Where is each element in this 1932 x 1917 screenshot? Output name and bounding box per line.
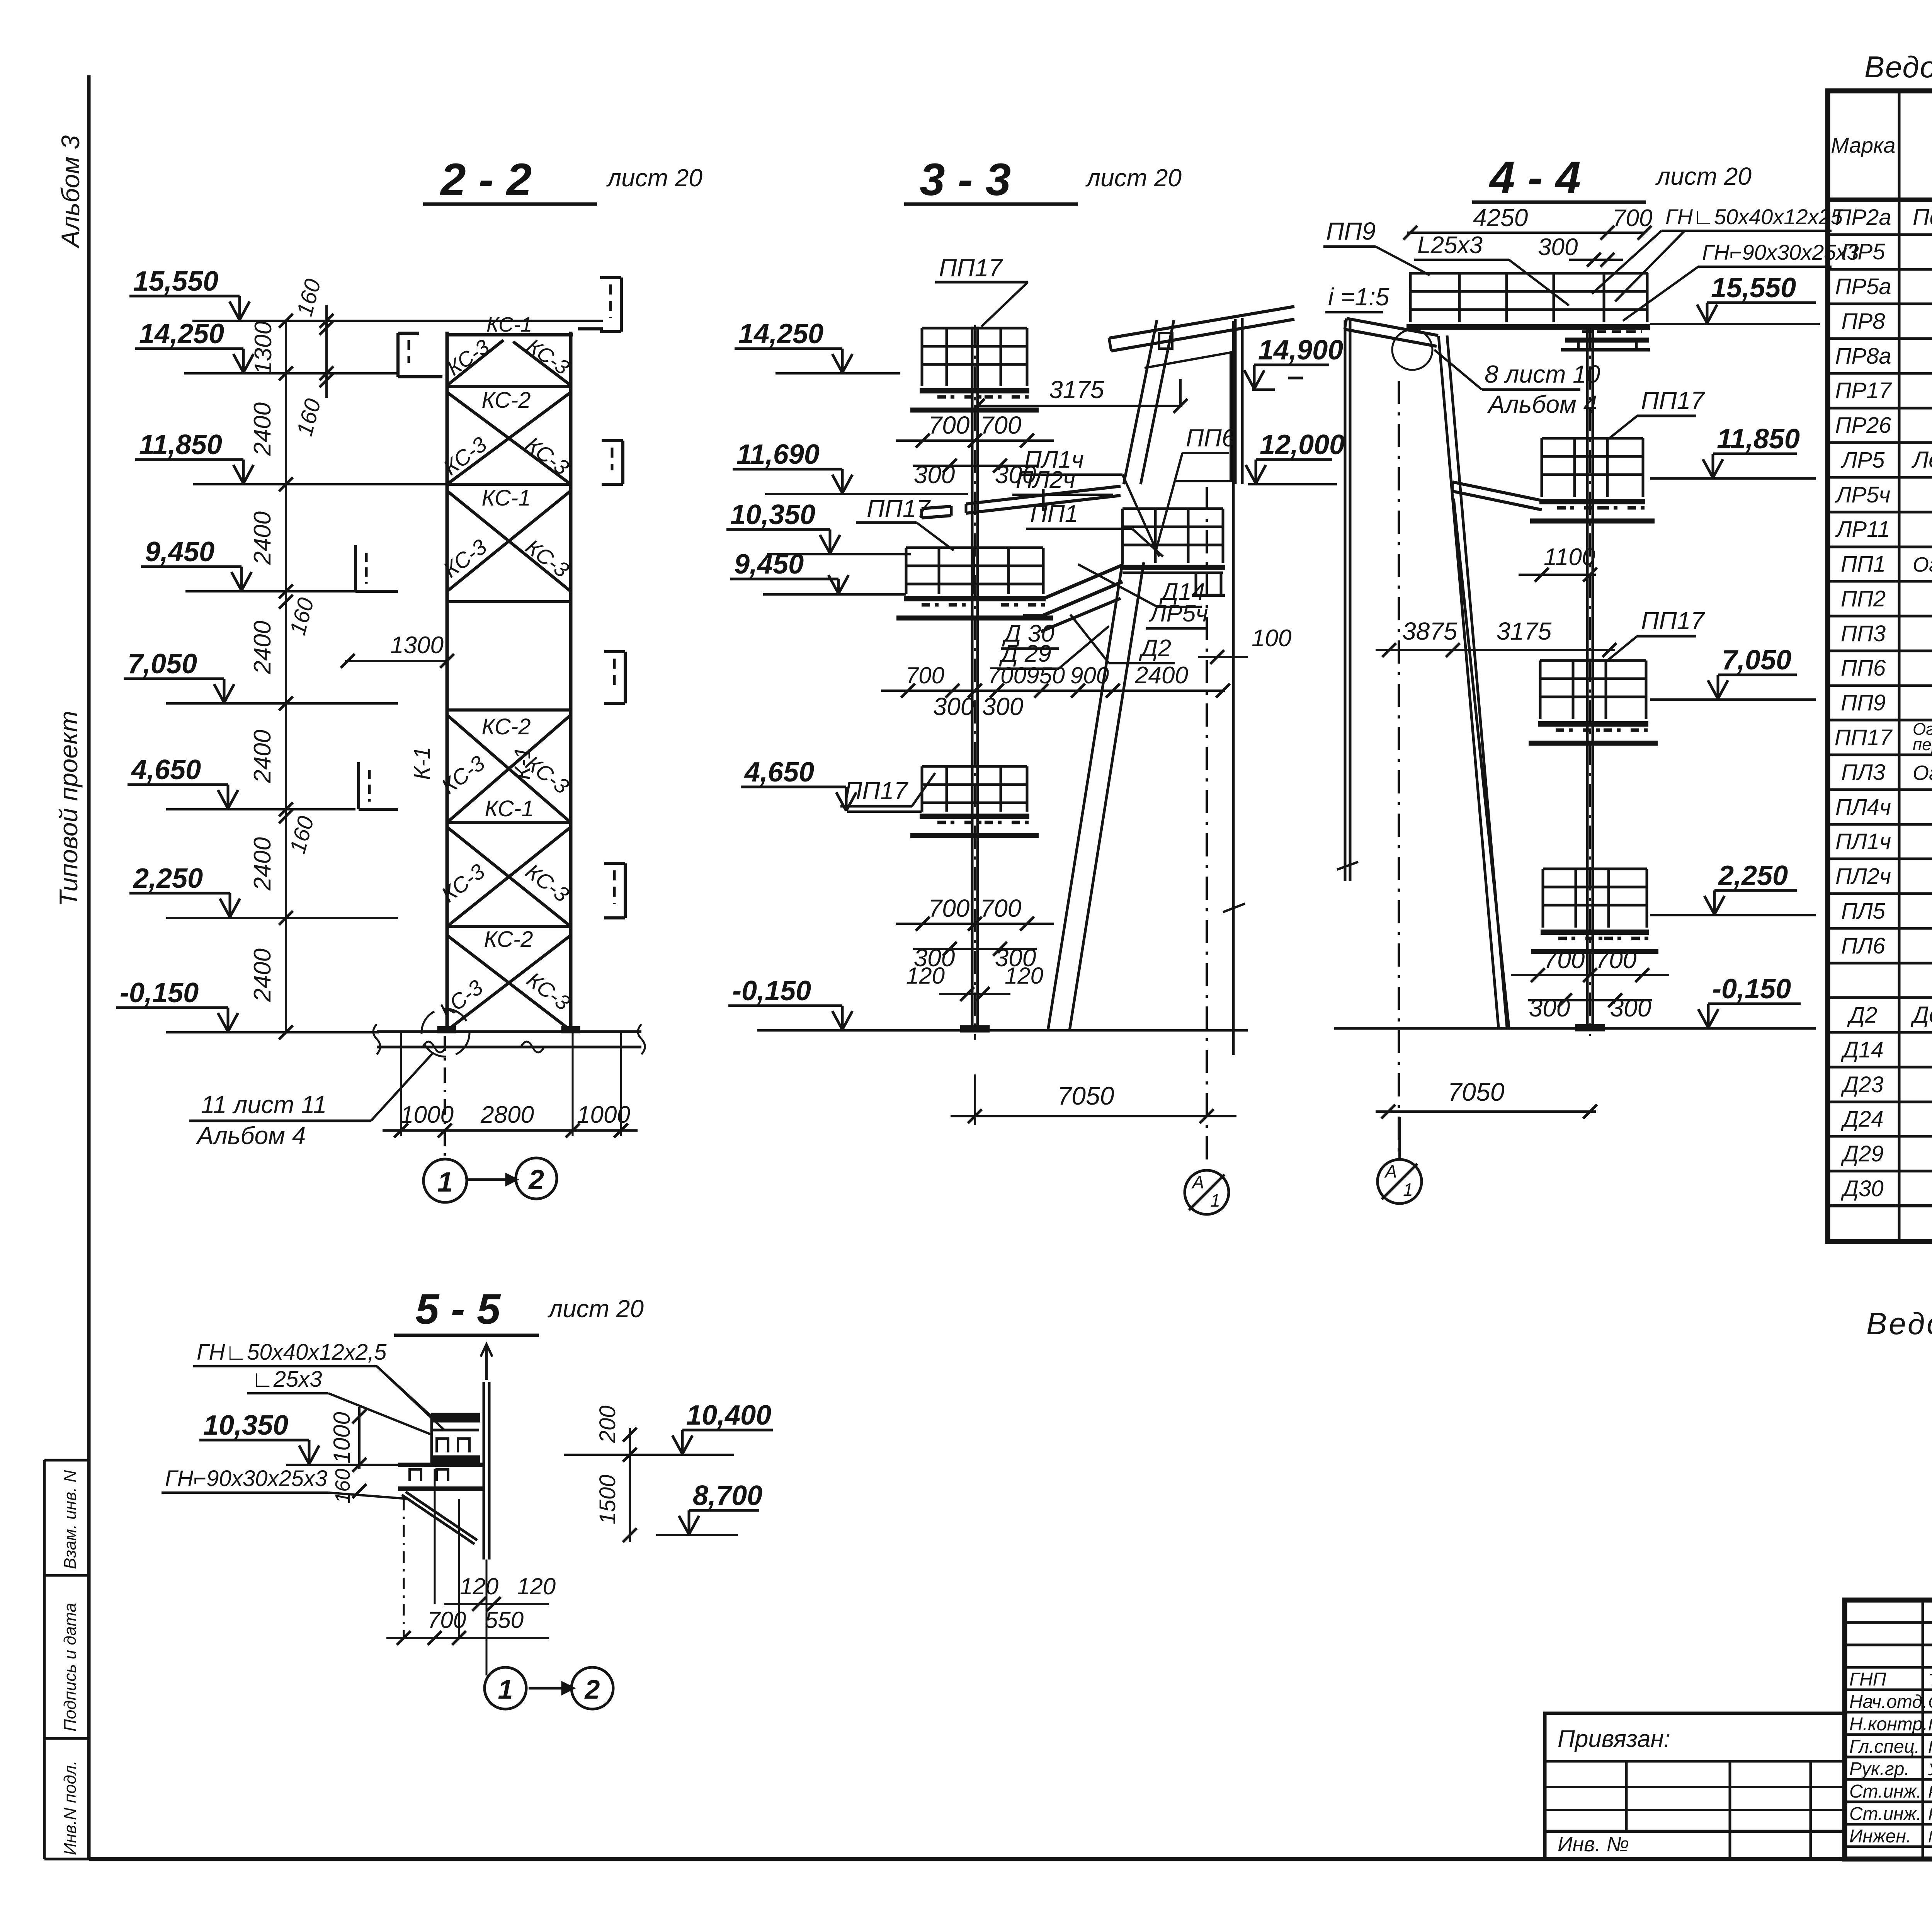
svg-text:700: 700 [1612,205,1652,232]
svg-text:3175: 3175 [1497,617,1552,645]
svg-text:переходных площадок: переходных площадок [1913,735,1932,754]
svg-text:Д2: Д2 [1139,635,1171,662]
svg-text:1: 1 [1210,1190,1220,1210]
svg-text:-0,150: -0,150 [732,976,811,1006]
channel bracket right top [620,278,623,332]
svg-text:160: 160 [331,1469,354,1503]
svg-text:2400: 2400 [249,402,276,456]
truss X panel 4 KC-3 [447,827,571,926]
svg-text:лист 20: лист 20 [606,164,702,192]
svg-text:1100: 1100 [1544,544,1595,570]
axis arrow 1-2 [468,1178,506,1181]
axis line to circle 1 [444,1036,446,1159]
truss X panel 2 KC-3 [447,491,571,591]
svg-text:ГН∟50х40х12х2,5: ГН∟50х40х12х2,5 [197,1340,387,1365]
svg-text:Д29: Д29 [1840,1141,1883,1166]
svg-text:4 - 4: 4 - 4 [1489,152,1581,203]
svg-text:КС-3: КС-3 [521,432,574,480]
svg-text:ПР2а: ПР2а [1835,205,1891,230]
truss X panel 5 KC-3 [447,935,571,1030]
svg-text:-0,150: -0,150 [120,977,199,1008]
svg-text:КС-1: КС-1 [485,796,534,821]
svg-text:ПП17: ПП17 [939,254,1003,282]
svg-text:7,050: 7,050 [128,649,197,679]
svg-text:120: 120 [1005,963,1043,989]
bend detail circle 4-4 [1392,330,1432,370]
svg-text:2400: 2400 [1134,662,1188,689]
svg-text:700: 700 [427,1607,466,1633]
svg-text:ПР17: ПР17 [1835,378,1892,403]
svg-text:2: 2 [584,1674,600,1704]
platform 11.85 4-4 [1542,437,1643,440]
detail channel clips 5-5 [437,1439,448,1452]
svg-text:7050: 7050 [1448,1078,1505,1106]
svg-text:Привязан:: Привязан: [1558,1726,1670,1752]
dim 7050 3-3 [974,1074,976,1125]
привязан grid [1545,1786,1845,1788]
svg-text:Д24: Д24 [1840,1107,1883,1132]
svg-text:2800: 2800 [480,1102,534,1128]
vertical refs 5-5 [403,1499,405,1638]
svg-text:Учитель: Учитель [1928,1760,1932,1779]
svg-text:300: 300 [1529,994,1570,1022]
svg-text:КС-1: КС-1 [486,313,532,336]
svg-text:L25х3: L25х3 [1417,232,1483,259]
svg-text:КС-2: КС-2 [482,714,531,739]
svg-text:200: 200 [595,1406,620,1444]
axis circle A/1 3-3 [1185,1170,1229,1214]
platform 2.25 4-4 [1543,868,1647,870]
svg-text:2400: 2400 [249,621,276,674]
svg-text:3 - 3: 3 - 3 [920,154,1011,205]
channel bracket right 7.05 [624,652,627,703]
svg-text:ПР8: ПР8 [1842,309,1885,334]
stair ЛР11 4-4 [1454,499,1509,1027]
gallery right column 3-3 [1234,319,1237,484]
svg-text:КС-3: КС-3 [521,859,574,907]
truss strut KC-2 at 2.25 [447,925,571,928]
svg-text:700: 700 [1544,946,1585,974]
svg-text:лист 20: лист 20 [1655,162,1752,190]
svg-text:4250: 4250 [1473,204,1528,232]
base detail circle [422,1009,469,1057]
svg-text:А: А [1191,1172,1204,1192]
svg-text:3875: 3875 [1402,617,1458,645]
svg-text:950: 950 [1026,662,1065,688]
svg-text:4,650: 4,650 [131,754,201,785]
svg-text:160: 160 [285,814,319,856]
svg-text:10,400: 10,400 [686,1400,771,1431]
svg-text:Альбом 4: Альбом 4 [196,1122,306,1149]
axis circle 2 5-5 [571,1667,613,1709]
svg-text:11,850: 11,850 [139,429,222,460]
platform ПП6 3-3 right part [1122,507,1223,510]
svg-text:ПЛ4ч: ПЛ4ч [1835,795,1891,820]
svg-text:700: 700 [929,894,970,922]
svg-text:К-1: К-1 [410,747,435,780]
channel bracket left 14.25 [396,333,400,377]
svg-text:300: 300 [933,693,975,720]
axis circle 1 5-5 [485,1667,526,1709]
detail brace 5-5 [406,1492,477,1540]
svg-text:ЛР5ч: ЛР5ч [1148,600,1208,627]
svg-text:ПП6: ПП6 [1186,424,1236,452]
svg-text:1000: 1000 [577,1102,630,1128]
tick mark near gallery [1288,377,1303,380]
svg-text:9,450: 9,450 [145,536,214,567]
axis dash 4-4 left [1398,381,1400,1159]
truss left chord K-1 [446,332,449,1032]
svg-text:ПР5: ПР5 [1842,239,1886,264]
channel bracket left 4.65 [359,808,398,811]
svg-text:∟25х3: ∟25х3 [252,1367,322,1392]
detail post arrow 5-5 [485,1345,488,1380]
foundation lines 2-2 [377,1030,641,1033]
svg-text:ПП9: ПП9 [1841,690,1886,715]
gallery inner panel 3-3 [1145,352,1231,481]
svg-text:14,900: 14,900 [1258,335,1343,366]
svg-text:160: 160 [292,396,326,439]
svg-text:2,250: 2,250 [1718,860,1788,891]
svg-text:ПП2: ПП2 [1841,586,1886,611]
svg-text:Гудзенко: Гудзенко [1928,1715,1932,1734]
svg-text:2400: 2400 [249,837,276,891]
svg-text:Взам. инв. N: Взам. инв. N [61,1470,80,1569]
svg-text:Гл.спец.: Гл.спец. [1849,1737,1920,1757]
svg-text:1: 1 [437,1167,453,1198]
svg-text:2400: 2400 [249,511,276,565]
svg-text:3175: 3175 [1049,376,1104,403]
truss strut KC-1 at 11.85 [447,483,571,486]
svg-text:ПР8а: ПР8а [1835,344,1891,369]
svg-text:Ведомость элементов смо: Ведомость элементов смотрите на листе 20… [1866,1306,1932,1341]
svg-text:2: 2 [528,1165,544,1195]
detail floor line 5-5 [398,1463,483,1467]
truss strut KC-1 at 4.65 [447,821,571,824]
inclined walkway ПЛ2ч 3-3 [966,486,1121,504]
svg-text:ПЛ6: ПЛ6 [1841,933,1886,958]
svg-text:Рапопорт: Рапопорт [1928,1805,1932,1824]
dims under 10.35 platform 3-3 [881,690,1225,692]
stair flight lower 3-3 [1048,562,1122,1030]
svg-text:Светличный: Светличный [1928,1693,1932,1712]
svg-text:12,000: 12,000 [1260,429,1345,460]
svg-text:Инв. №: Инв. № [1558,1833,1629,1856]
svg-text:лист 20: лист 20 [547,1295,644,1323]
ground line 4-4 [1334,1027,1719,1030]
dim 7050 4-4 [1376,1110,1596,1113]
svg-text:Ст.инж.: Ст.инж. [1849,1804,1922,1824]
svg-text:700: 700 [906,662,944,688]
svg-text:КС-3: КС-3 [522,967,575,1015]
axis circle A/1 4-4 [1378,1159,1422,1204]
svg-text:2400: 2400 [249,948,276,1002]
svg-text:Дополнительный элемент: Дополнительный элемент [1910,1002,1932,1028]
svg-text:Подпись и дата: Подпись и дата [61,1603,80,1731]
svg-text:КС-3: КС-3 [443,335,493,380]
svg-text:Альбом 4: Альбом 4 [1487,390,1597,418]
axis circle 1 [423,1159,467,1202]
secondary 160 offsets [325,305,328,398]
truss X panel 1 KC-3 [447,392,571,484]
gallery support leg 4-4 [1439,336,1498,1027]
svg-text:А: А [1384,1161,1397,1182]
svg-text:ПП17: ПП17 [1641,386,1705,414]
channel bracket right 2.25 [624,863,627,918]
svg-text:10,350: 10,350 [730,499,815,530]
svg-text:Типовой проект: Типовой проект [54,711,83,906]
channel bracket left 9.45 [355,590,398,593]
axis dash line 3-3 right [1206,487,1208,1168]
svg-text:Д14: Д14 [1840,1037,1883,1062]
top platform 15.55 4-4 [1409,272,1648,275]
dims 700-700 under 2.25 platform 4-4 [1511,974,1669,976]
svg-text:8,700: 8,700 [693,1480,762,1511]
svg-text:7050: 7050 [1058,1081,1114,1110]
dim 3175 3-3 [974,405,1182,407]
dims 700-700 under top platform 3-3 [896,439,1054,442]
gallery roof left 4-4 [1347,318,1438,335]
svg-text:1: 1 [1403,1180,1413,1200]
svg-text:Н.контр.: Н.контр. [1849,1714,1928,1735]
walkway plank piece left of post [922,506,951,509]
svg-text:15,550: 15,550 [1711,272,1796,303]
svg-text:Д30: Д30 [1840,1176,1883,1201]
svg-text:Марка: Марка [1831,133,1895,157]
svg-text:Лестничный марш: Лестничный марш [1911,447,1932,473]
svg-text:КС-3: КС-3 [523,334,573,380]
axes dimension 1000-2800-1000 [400,1032,402,1136]
svg-text:Инжен.: Инжен. [1849,1826,1911,1847]
dims 700-700 under 4.65 platform 3-3 [896,923,1054,925]
svg-text:14,250: 14,250 [139,318,224,349]
svg-text:Мазаева: Мазаева [1928,1827,1932,1846]
title block signature rows [1845,1621,1932,1624]
svg-text:9,450: 9,450 [734,549,804,580]
svg-text:ПП17: ПП17 [844,777,908,805]
svg-text:Туринский: Туринский [1928,1670,1932,1689]
truss top panel lambda brace KC-3 [447,340,503,385]
platform 7.05 4-4 [1540,659,1646,662]
svg-text:1300: 1300 [250,321,277,375]
svg-text:550: 550 [485,1607,524,1633]
svg-text:ГНП: ГНП [1849,1669,1886,1690]
svg-text:300: 300 [982,693,1024,720]
platform 10.35 3-3 left part [906,546,1043,549]
dim 1300 horizontal [345,660,447,662]
truss base plates [438,1027,455,1032]
привязан block frame [1545,1713,1845,1859]
svg-text:ГН⌐90х30х25х3: ГН⌐90х30х25х3 [1702,240,1859,264]
svg-text:ПП1: ПП1 [1030,501,1078,527]
top platform right support 4-4 [1582,330,1642,333]
svg-text:Альбом 3: Альбом 3 [56,135,85,249]
svg-text:ЛР5: ЛР5 [1840,448,1885,473]
truss right chord K-1 [569,332,573,1032]
svg-text:14,250: 14,250 [738,318,823,349]
svg-text:1500: 1500 [595,1474,620,1524]
svg-text:ПЛ2ч: ПЛ2ч [1016,466,1075,493]
svg-text:ПП17: ПП17 [867,495,931,523]
svg-text:11,690: 11,690 [736,439,820,470]
truss top chord KC-1 [446,333,573,337]
svg-text:Инв.N подл.: Инв.N подл. [61,1760,80,1855]
svg-text:Переходная площадка: Переходная площадка [1913,204,1932,230]
svg-text:700: 700 [980,894,1022,922]
svg-text:ПП17: ПП17 [1835,725,1893,750]
svg-text:КС-3: КС-3 [521,534,574,582]
svg-text:700: 700 [988,662,1026,688]
svg-text:5 - 5: 5 - 5 [415,1285,501,1333]
svg-text:КС-2: КС-2 [484,927,533,952]
axis circle 2 [516,1158,557,1199]
svg-text:300: 300 [1610,994,1651,1022]
table bottom row Масса всего [1828,1204,1932,1207]
svg-text:-0,150: -0,150 [1712,974,1791,1004]
svg-text:900: 900 [1070,662,1109,688]
svg-text:100: 100 [1252,625,1291,652]
gallery roof vent 3-3 [1159,333,1172,349]
svg-text:К-1: К-1 [510,747,535,780]
svg-text:ЛР5ч: ЛР5ч [1835,482,1891,507]
svg-text:Д2: Д2 [1847,1003,1877,1028]
svg-text:ПР5а: ПР5а [1835,274,1891,299]
svg-text:8 лист 10: 8 лист 10 [1485,360,1600,388]
svg-text:Гудзенко: Гудзенко [1928,1738,1932,1757]
svg-text:4,650: 4,650 [744,757,814,788]
svg-text:700: 700 [980,411,1022,439]
vertical dimension chain 2-2 [285,321,287,1032]
svg-text:КС-1: КС-1 [482,485,531,511]
svg-text:Ограждение лестничного марша: Ограждение лестничного марша [1913,761,1932,785]
svg-text:160: 160 [285,595,319,638]
svg-text:1000: 1000 [329,1412,355,1463]
svg-text:2,250: 2,250 [133,863,203,894]
gallery roof 3-3 [1109,306,1294,338]
svg-text:Нач.отд.: Нач.отд. [1849,1692,1927,1712]
svg-text:КС-2: КС-2 [482,388,531,413]
svg-text:ПП17: ПП17 [1641,607,1705,635]
svg-text:ПЛ3: ПЛ3 [1841,760,1885,785]
svg-text:Ограждение переходной площадки: Ограждение переходной площадки [1913,553,1932,576]
bend diamond 3-3 [1043,565,1122,599]
svg-text:120: 120 [517,1573,556,1599]
svg-text:Ст.инж.: Ст.инж. [1849,1781,1922,1802]
svg-text:ЛР11: ЛР11 [1835,517,1890,542]
svg-text:700: 700 [1595,946,1637,974]
svg-text:ПР26: ПР26 [1835,413,1891,438]
truss strut KC-2 at 7.05 [447,708,571,712]
table rows [1828,233,1932,236]
svg-text:ПЛ2ч: ПЛ2ч [1835,864,1891,889]
svg-text:2 - 2: 2 - 2 [440,154,532,205]
svg-text:Рапопорт: Рапопорт [1928,1783,1932,1801]
left column 4-4 [1344,320,1347,881]
post base plate 3-3 [961,1026,989,1032]
svg-text:300: 300 [1538,234,1578,260]
table header grid [1898,91,1901,1241]
left margin stamp boxes [43,1460,46,1859]
axis arrow 1-2 5-5 [529,1687,562,1690]
svg-text:ГН⌐90х30х25х3: ГН⌐90х30х25х3 [165,1466,327,1491]
svg-text:Д23: Д23 [1840,1072,1883,1097]
truss strut KC-2 at 14.25 [447,385,571,388]
svg-text:1: 1 [498,1674,513,1704]
svg-text:120: 120 [460,1573,498,1599]
post 3-3 [971,327,974,1028]
detail bottom plate 5-5 [398,1486,485,1491]
svg-text:ПП6: ПП6 [1841,655,1886,681]
svg-text:Ведомость элементов по с: Ведомость элементов по серии 1.459-2 вып… [1864,50,1932,84]
walkway plank break [1042,489,1045,511]
dim 4250 top 4-4 [1407,232,1645,234]
page bottom border [89,1857,1932,1861]
post base plate 4-4 [1576,1025,1604,1030]
walkway to platform 4-4 [1452,482,1542,501]
detail post 5-5 [483,1382,485,1559]
callout 11 лист 11 Альбом 4 [189,1120,371,1122]
svg-text:Рук.гр.: Рук.гр. [1849,1759,1910,1779]
svg-text:ПП9: ПП9 [1326,217,1376,245]
dim 1000 5-5 [358,1407,361,1469]
ПП6 right support bracket [1195,573,1197,595]
svg-text:2400: 2400 [249,730,276,783]
detail hangers 5-5 [410,1469,421,1481]
svg-text:15,550: 15,550 [133,266,218,297]
svg-text:7,050: 7,050 [1722,645,1791,676]
dims 300-300 under top platform 3-3 [943,459,957,473]
table outer frame [1828,91,1932,1241]
dim 200 1500 5-5 [629,1428,631,1542]
truss strut at 9.45 [447,600,571,603]
stair flight ЛР5ч upper 3-3 [1124,320,1157,484]
svg-text:11 лист 11: 11 лист 11 [201,1091,327,1119]
svg-text:11,850: 11,850 [1717,424,1800,455]
svg-text:ПП3: ПП3 [1841,621,1886,646]
channel bracket right 11.85 [621,441,624,484]
привязан header [1545,1760,1845,1763]
svg-text:ПЛ5: ПЛ5 [1841,899,1886,924]
svg-text:ГН∟50х40х12х25: ГН∟50х40х12х25 [1665,204,1843,229]
detail channel bars 5-5 [432,1414,479,1422]
svg-text:лист 20: лист 20 [1085,164,1182,192]
dims 3875 3175 4-4 [1376,649,1615,651]
svg-text:ПП1: ПП1 [1841,552,1886,577]
page left border [87,75,91,1859]
platform 4.65 3-3 [922,765,1027,768]
svg-text:10,350: 10,350 [203,1410,288,1441]
svg-text:160: 160 [292,276,326,319]
svg-text:120: 120 [906,963,945,989]
svg-text:1300: 1300 [390,632,444,659]
svg-text:i =1:5: i =1:5 [1328,283,1389,311]
platform 14.25 3-3 [922,327,1027,330]
title block outer frame [1845,1600,1932,1859]
post 4-4 [1586,327,1589,1026]
svg-text:ПЛ1ч: ПЛ1ч [1835,829,1891,854]
truss X panel 3 KC-3 [447,715,571,822]
svg-text:700: 700 [929,411,970,439]
title block signature columns [1922,1600,1924,1859]
ground line 3-3 [804,1029,1248,1032]
